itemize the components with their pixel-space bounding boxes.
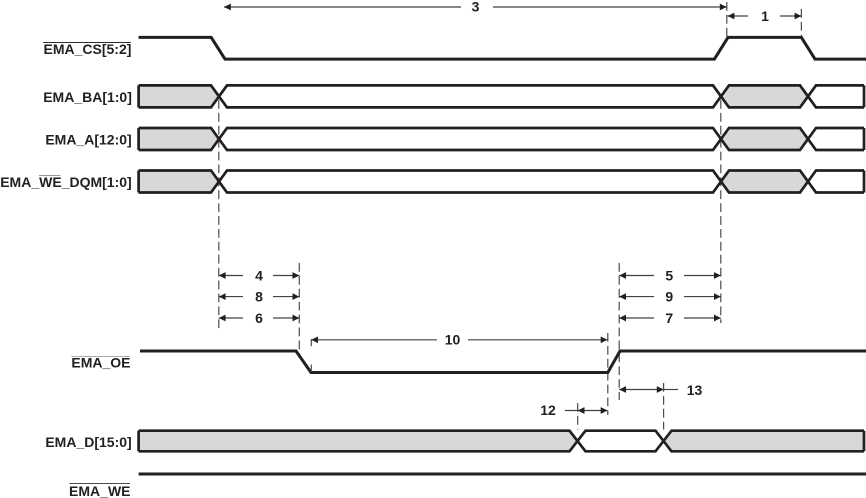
- svg-text:12: 12: [540, 402, 556, 418]
- svg-text:4: 4: [255, 267, 263, 283]
- svg-text:EMA_D[15:0]: EMA_D[15:0]: [45, 434, 131, 450]
- svg-text:EMA_WE_DQM[1:0]: EMA_WE_DQM[1:0]: [0, 174, 131, 190]
- svg-text:10: 10: [445, 332, 461, 348]
- svg-text:3: 3: [472, 0, 480, 15]
- svg-text:EMA_CS[5:2]: EMA_CS[5:2]: [43, 41, 131, 57]
- svg-text:9: 9: [665, 288, 673, 304]
- svg-text:EMA_OE: EMA_OE: [71, 355, 130, 371]
- svg-text:EMA_A[12:0]: EMA_A[12:0]: [45, 132, 131, 148]
- svg-text:13: 13: [687, 382, 703, 398]
- svg-text:EMA_BA[1:0]: EMA_BA[1:0]: [43, 89, 132, 105]
- svg-text:1: 1: [761, 8, 769, 24]
- svg-text:EMA_WE: EMA_WE: [69, 483, 130, 498]
- svg-text:7: 7: [665, 310, 673, 326]
- svg-text:8: 8: [255, 288, 263, 304]
- svg-text:5: 5: [665, 267, 673, 283]
- svg-text:6: 6: [255, 310, 263, 326]
